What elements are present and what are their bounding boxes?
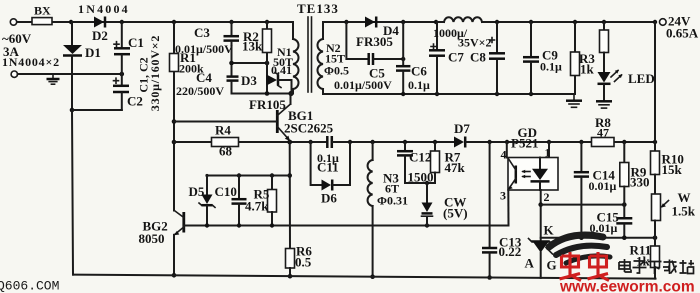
svg-text:BX: BX — [34, 4, 51, 18]
svg-text:C12: C12 — [409, 150, 431, 165]
svg-text:0.65A: 0.65A — [666, 26, 699, 41]
svg-text:R4: R4 — [215, 123, 231, 138]
svg-text:C6: C6 — [411, 64, 427, 79]
svg-text:2SC2625: 2SC2625 — [284, 121, 334, 136]
svg-text:www.eeworm.com: www.eeworm.com — [559, 279, 695, 293]
svg-text:C4: C4 — [196, 70, 212, 85]
svg-text:1k: 1k — [580, 62, 595, 77]
svg-text:0.01μ/500V: 0.01μ/500V — [334, 78, 392, 92]
svg-text:1.5k: 1.5k — [672, 204, 696, 219]
svg-text:330μ/160V×2: 330μ/160V×2 — [148, 35, 162, 111]
svg-text:0.01μ: 0.01μ — [589, 179, 617, 193]
svg-text:LED: LED — [628, 71, 655, 86]
svg-text:D2: D2 — [92, 28, 108, 43]
svg-text:D3: D3 — [241, 73, 257, 88]
svg-text:68: 68 — [219, 144, 233, 159]
svg-text:C8: C8 — [470, 50, 486, 65]
svg-text:C10: C10 — [215, 184, 237, 199]
svg-text:0.5: 0.5 — [295, 255, 312, 270]
svg-text:13k: 13k — [242, 39, 263, 54]
svg-text:TE133: TE133 — [297, 1, 339, 16]
svg-text:D6: D6 — [321, 191, 337, 206]
svg-text:1500: 1500 — [408, 170, 434, 185]
svg-text:4.7k: 4.7k — [245, 199, 269, 214]
svg-text:47k: 47k — [445, 160, 466, 175]
svg-text:Φ0.31: Φ0.31 — [377, 194, 408, 208]
svg-text:1: 1 — [545, 146, 551, 160]
svg-text:D1: D1 — [85, 45, 101, 60]
svg-text:4: 4 — [501, 148, 507, 162]
svg-text:Q606.COM: Q606.COM — [0, 279, 59, 293]
svg-text:D7: D7 — [454, 121, 470, 136]
svg-text:C7: C7 — [448, 50, 464, 65]
svg-text:0.01μ/500V: 0.01μ/500V — [175, 42, 233, 56]
svg-text:0.1μ: 0.1μ — [540, 60, 562, 74]
svg-text:A: A — [525, 256, 535, 271]
svg-text:15k: 15k — [662, 162, 683, 177]
svg-text:330: 330 — [630, 175, 650, 190]
svg-text:1N4004: 1N4004 — [78, 2, 130, 16]
svg-text:(5V): (5V) — [443, 206, 468, 221]
svg-text:35V×2: 35V×2 — [458, 36, 492, 50]
svg-text:C2: C2 — [127, 94, 143, 109]
svg-text:C1: C1 — [128, 35, 144, 50]
svg-text:2: 2 — [544, 190, 550, 204]
svg-text:D5: D5 — [189, 184, 205, 199]
svg-text:G: G — [547, 258, 557, 273]
svg-text:0.41: 0.41 — [271, 63, 292, 77]
svg-text:P521: P521 — [511, 136, 538, 151]
svg-text:220/500V: 220/500V — [176, 84, 224, 98]
svg-text:0.22: 0.22 — [499, 244, 522, 259]
svg-text:C11: C11 — [317, 160, 339, 175]
svg-text:FR305: FR305 — [356, 34, 393, 49]
svg-text:47: 47 — [597, 126, 609, 140]
svg-text:Φ0.5: Φ0.5 — [324, 64, 349, 78]
svg-text:FR105: FR105 — [249, 97, 286, 112]
svg-text:0.1μ: 0.1μ — [408, 78, 430, 92]
svg-text:C3: C3 — [194, 25, 210, 40]
svg-text:K: K — [544, 223, 555, 238]
svg-text:1N4004×2: 1N4004×2 — [2, 55, 60, 69]
svg-text:3: 3 — [500, 189, 506, 203]
svg-text:8050: 8050 — [139, 231, 165, 246]
